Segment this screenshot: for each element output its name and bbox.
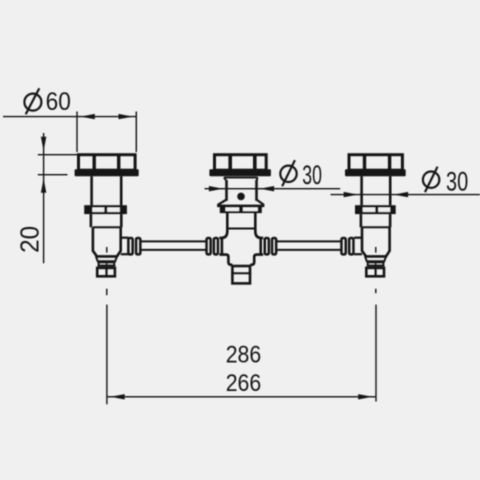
dimension D60 label — [24, 88, 70, 116]
middle valve body line — [227, 228, 255, 230]
right valve coupling ring 2 — [349, 238, 353, 254]
left valve tail trapezoid — [96, 256, 117, 261]
right valve tail band — [368, 262, 384, 265]
left valve nozzle — [97, 268, 115, 276]
middle valve upper body — [227, 180, 257, 201]
middle valve skirt — [217, 200, 264, 214]
right valve bonnet — [362, 176, 391, 205]
right valve body block — [362, 227, 390, 256]
right valve coupling ring 1 — [341, 238, 345, 254]
dimension D60 lines — [3, 112, 136, 153]
right valve body step — [362, 226, 390, 228]
right valve inlet arm — [354, 238, 362, 255]
middle valve lower body — [227, 213, 255, 233]
left valve bonnet — [92, 176, 122, 205]
right valve upper body — [361, 214, 390, 227]
right valve nozzle — [366, 268, 384, 276]
dimension D30 right label — [423, 166, 468, 196]
middle valve inlet hole — [237, 193, 245, 201]
svg-text:266: 266 — [226, 370, 262, 397]
dimension 286-266 extension lines — [107, 305, 376, 405]
svg-text:30: 30 — [446, 166, 468, 196]
dimension D60 arrows — [81, 114, 95, 119]
middle valve shoulder — [224, 178, 258, 182]
left valve hex cap — [79, 154, 136, 171]
left valve coupling ring 2 — [136, 238, 140, 254]
left valve centerline — [106, 247, 108, 295]
dimension D30 middle line — [205, 188, 341, 190]
dimension D30 middle arrows — [209, 186, 223, 191]
pipe right segment — [277, 241, 341, 250]
left valve cap washer — [75, 169, 139, 176]
right valve tail trapezoid — [365, 256, 386, 261]
middle valve tee block — [219, 231, 263, 265]
middle valve cap washer — [209, 169, 271, 176]
right valve hex cap — [349, 154, 402, 171]
left valve outlet arm — [121, 238, 129, 255]
left valve body block — [93, 227, 121, 256]
left valve flange — [84, 205, 127, 214]
dimension 286-266 arrows — [110, 394, 124, 399]
svg-text:286: 286 — [226, 342, 262, 369]
left valve body step — [93, 226, 121, 228]
dimension 20 lines — [38, 133, 78, 263]
dimension D30 middle label — [280, 160, 322, 190]
right valve centerline — [375, 247, 377, 293]
left valve upper body — [91, 214, 121, 227]
dimension 20 arrows — [41, 137, 46, 151]
middle valve hex cap — [215, 154, 267, 171]
svg-text:20: 20 — [14, 226, 44, 253]
left valve coupling ring 1 — [128, 238, 132, 254]
dimension D30 right line — [331, 194, 480, 196]
middle valve nozzle — [231, 266, 251, 283]
right valve flange — [355, 205, 396, 214]
svg-text:30: 30 — [302, 160, 322, 190]
middle valve coupling rings left — [207, 238, 211, 254]
middle valve coupling rings right — [265, 238, 269, 254]
right valve cap washer — [345, 169, 406, 176]
pipe left segment — [142, 241, 206, 250]
dimension D30 right arrows — [344, 192, 358, 197]
left valve tail band — [99, 262, 115, 265]
svg-text:60: 60 — [46, 88, 71, 116]
